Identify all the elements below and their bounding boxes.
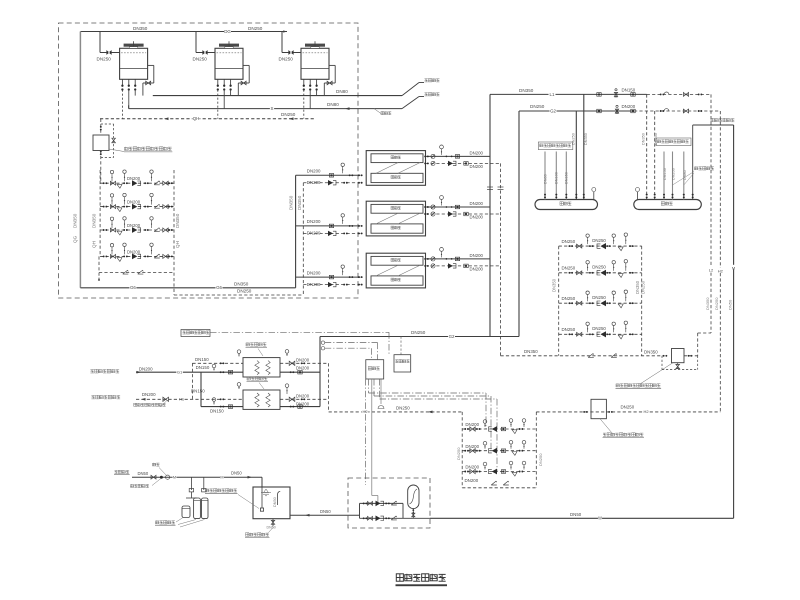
svg-text:DN350: DN350 [519,88,534,93]
svg-text:DN200: DN200 [465,478,479,483]
svg-text:DN200: DN200 [307,282,321,287]
svg-text:DN50: DN50 [267,526,276,530]
svg-text:DN200: DN200 [127,223,141,228]
svg-text:DN250: DN250 [592,295,606,300]
svg-text:DN200: DN200 [672,168,676,180]
svg-text:DN250: DN250 [592,238,606,243]
svg-text:DN200: DN200 [307,180,321,185]
svg-text:DN150: DN150 [663,168,667,180]
svg-text:DN80: DN80 [543,174,547,184]
svg-text:DN350: DN350 [288,195,293,210]
svg-text:DN350: DN350 [234,281,249,286]
svg-text:DN200: DN200 [296,357,310,362]
svg-text:DN80: DN80 [683,170,687,180]
svg-text:DN200: DN200 [465,422,479,427]
svg-text:DN250: DN250 [530,104,545,109]
svg-text:DN250: DN250 [396,405,410,410]
svg-text:DN100: DN100 [555,172,559,184]
svg-text:DN350: DN350 [524,349,538,354]
svg-text:G2: G2 [550,108,556,113]
svg-text:DN200: DN200 [127,176,141,181]
svg-text:DN250: DN250 [562,239,576,244]
svg-text:DN50: DN50 [727,299,732,310]
svg-text:DN200: DN200 [142,392,156,397]
svg-text:DN150: DN150 [565,172,569,184]
svg-text:W: W [598,516,602,521]
svg-text:DN200: DN200 [470,164,484,169]
svg-text:G2: G2 [449,334,455,339]
svg-text:DN350: DN350 [73,213,78,228]
svg-text:DN200: DN200 [465,444,479,449]
svg-text:DN250: DN250 [248,26,263,31]
svg-text:M: M [732,265,735,270]
svg-text:DN200: DN200 [622,104,636,109]
svg-text:DN200: DN200 [470,267,484,272]
svg-text:DN200: DN200 [470,201,484,206]
svg-text:DN200: DN200 [470,150,484,155]
svg-text:QH: QH [193,116,200,121]
svg-text:M: M [173,475,176,479]
svg-text:DN150: DN150 [196,365,210,370]
svg-text:DN350: DN350 [133,26,148,31]
svg-text:DN200: DN200 [296,365,310,370]
svg-text:DN200: DN200 [139,366,153,371]
svg-text:DG: DG [224,29,231,34]
svg-text:G6: G6 [130,285,136,290]
svg-text:DN250: DN250 [237,289,252,294]
svg-text:DN350: DN350 [584,133,588,145]
svg-text:DN250: DN250 [641,280,646,294]
svg-text:M: M [220,475,223,479]
svg-text:DN350: DN350 [705,297,710,310]
svg-text:DN200: DN200 [127,249,141,254]
svg-text:DN80: DN80 [327,102,339,107]
svg-text:DN250: DN250 [654,133,658,145]
svg-text:H2: H2 [643,409,649,414]
svg-text:DN200: DN200 [470,253,484,258]
svg-text:DN80: DN80 [336,89,348,94]
svg-text:L2: L2 [709,267,714,272]
svg-text:DN200: DN200 [127,200,141,205]
svg-text:DN200: DN200 [296,393,310,398]
svg-text:DN250: DN250 [562,266,576,271]
svg-text:DN350: DN350 [635,280,640,294]
svg-text:DN50: DN50 [138,471,149,476]
svg-text:DN350: DN350 [642,133,646,145]
svg-text:DN200: DN200 [296,401,310,406]
svg-text:DN350: DN350 [644,349,658,354]
svg-text:DN250: DN250 [281,112,296,117]
svg-text:DN150: DN150 [191,388,205,393]
svg-text:DN50: DN50 [320,509,331,514]
svg-text:DN250: DN250 [562,327,576,332]
svg-text:DN200: DN200 [470,215,484,220]
svg-text:G6: G6 [216,285,222,290]
svg-text:DN200: DN200 [307,219,321,224]
svg-text:DN250: DN250 [279,57,294,62]
svg-text:DN200: DN200 [307,169,321,174]
svg-text:DN200: DN200 [465,465,479,470]
svg-text:DN250: DN250 [411,330,426,335]
svg-text:DN350: DN350 [92,213,97,228]
svg-text:DN250: DN250 [538,453,543,466]
svg-text:S: S [271,106,274,111]
svg-text:DN250: DN250 [193,57,208,62]
svg-text:DN250: DN250 [592,326,606,331]
svg-text:DN250: DN250 [97,57,112,62]
svg-text:QH: QH [175,241,180,248]
svg-text:DN150: DN150 [622,88,636,93]
svg-text:DN350: DN350 [551,278,556,292]
svg-text:DN250: DN250 [571,133,575,145]
svg-text:DN50: DN50 [273,497,277,507]
svg-text:DN250: DN250 [562,296,576,301]
svg-text:DN150: DN150 [195,357,209,362]
svg-text:H2: H2 [718,268,724,273]
svg-text:L1: L1 [550,92,555,97]
svg-text:DN250: DN250 [714,297,719,310]
svg-text:DN350: DN350 [297,195,302,210]
svg-text:QH: QH [92,241,97,248]
svg-text:DN200: DN200 [307,270,321,275]
svg-text:DN350: DN350 [175,213,180,228]
svg-text:DN250: DN250 [621,404,635,409]
svg-text:DN150: DN150 [210,409,224,414]
svg-text:G1: G1 [177,369,183,374]
svg-text:DN250: DN250 [592,265,606,270]
svg-text:DN200: DN200 [307,231,321,236]
svg-text:DN50: DN50 [231,470,242,475]
svg-text:DN250: DN250 [456,447,461,460]
svg-text:QG: QG [73,235,78,243]
svg-text:DN50: DN50 [570,512,582,517]
